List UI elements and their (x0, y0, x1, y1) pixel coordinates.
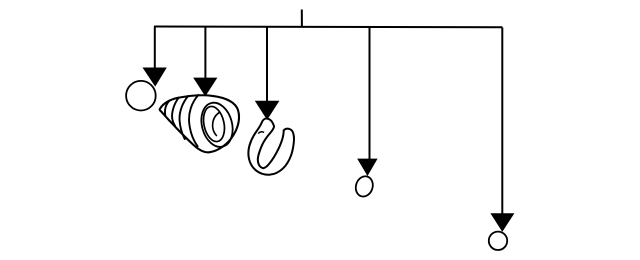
shell outline (160, 95, 239, 152)
shell aperture outer ring (197, 99, 238, 150)
arrowhead 1 (143, 68, 167, 87)
arrowhead 4 (357, 159, 377, 176)
wire: drop line 5 (501, 28, 503, 215)
shell item 2 (160, 95, 239, 152)
shell stripe 2 (172, 98, 179, 126)
arrowhead 2 (193, 78, 217, 97)
arrowhead 5 (490, 213, 514, 232)
wire: drop line 4 (369, 27, 371, 159)
shell stripe 1 (165, 100, 170, 116)
U-tube cap opening arc (258, 132, 264, 134)
shell aperture inner ring (201, 105, 228, 144)
wire: drop line 2 (204, 27, 206, 80)
shell stripe 3 (180, 96, 189, 139)
U-tube outline (248, 118, 294, 174)
circle item 5 (489, 232, 507, 250)
shell aperture crescent (213, 112, 220, 135)
wire: drop line 3 (266, 27, 268, 103)
U-tube item 3 (248, 118, 294, 174)
shell stripe 4 (189, 95, 198, 146)
arrowhead 3 (255, 101, 280, 120)
node: center stem tick (301, 10, 303, 28)
circle item 1 (126, 81, 156, 111)
wire: drop line 1 (154, 27, 156, 70)
wire: top horizontal bar (154, 26, 503, 29)
ellipse item 4 (353, 174, 375, 199)
